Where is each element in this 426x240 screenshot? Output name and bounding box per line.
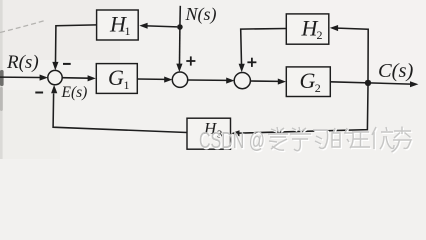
- block H2: [286, 14, 329, 44]
- svg-text:N(s): N(s): [185, 4, 217, 25]
- block G2: [286, 67, 330, 97]
- wire H2 to S3: [239, 29, 287, 73]
- svg-text:2: 2: [315, 81, 321, 95]
- svg-text:R(s): R(s): [6, 52, 39, 73]
- wire G2 to output C(s): [330, 81, 418, 87]
- svg-text:1: 1: [125, 24, 131, 38]
- plus sign at S3: [247, 58, 256, 67]
- wire S1 to G1: [62, 75, 96, 81]
- watermark CSDN: [199, 127, 266, 154]
- svg-text:C(s): C(s): [378, 60, 413, 82]
- 秀: [393, 128, 413, 154]
- wire R(s) input arrow: [0, 75, 48, 81]
- watermark CJK glyph strokes (爱学习的王优秀) drawn as paths: [269, 128, 412, 154]
- svg-text:CSDN @: CSDN @: [199, 127, 265, 153]
- summing junction S2: [172, 72, 187, 87]
- scan smudge blob left edge: [0, 70, 4, 86]
- block H3: [187, 118, 231, 149]
- svg-text:2: 2: [317, 28, 323, 42]
- wire H3 to S1 bottom: [51, 85, 187, 133]
- wire N(s) input drop line: [176, 6, 182, 72]
- summing junction S1: [48, 70, 62, 84]
- block G1: [96, 64, 137, 94]
- 爱: [269, 128, 289, 151]
- minus sign above S1: [63, 63, 71, 65]
- wire G1 to S2: [137, 77, 172, 83]
- svg-text:1: 1: [124, 78, 130, 92]
- node on N(s) line: [177, 24, 183, 30]
- svg-text:E(s): E(s): [61, 84, 88, 101]
- faint scratch top-left: [0, 21, 45, 33]
- wire S2 to S3: [188, 78, 235, 84]
- 优: [373, 128, 395, 150]
- node output takeoff dot: [365, 80, 371, 86]
- 王: [352, 133, 371, 148]
- wire N node to H1: [139, 23, 177, 29]
- wire S3 to G2: [250, 79, 286, 85]
- plus sign at S2: [186, 56, 195, 65]
- wire node down to H3: [231, 86, 368, 136]
- summing junction S3: [234, 73, 250, 89]
- 学: [291, 128, 312, 152]
- scan edge strip left: [0, 0, 3, 159]
- 习: [314, 131, 329, 150]
- 的: [333, 129, 354, 149]
- wire node up to H2: [330, 25, 368, 80]
- svg-text:G: G: [108, 65, 124, 90]
- wire H1 to S1: [52, 25, 96, 71]
- block H1: [97, 10, 139, 40]
- svg-text:G: G: [300, 68, 316, 93]
- minus sign below-left of S1: [35, 92, 43, 94]
- paper background: [0, 0, 426, 159]
